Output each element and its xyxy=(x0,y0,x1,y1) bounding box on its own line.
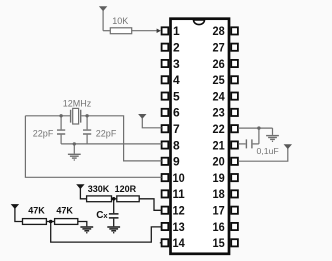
svg-text:0,1uF: 0,1uF xyxy=(257,146,279,156)
svg-text:10K: 10K xyxy=(112,16,128,26)
junction node 47K/47K xyxy=(49,220,53,224)
svg-text:27: 27 xyxy=(213,41,225,55)
ground below caps xyxy=(73,144,75,154)
power triangle 330K xyxy=(76,184,84,189)
svg-text:5: 5 xyxy=(173,89,180,103)
wire 47K2 to ground xyxy=(78,222,87,227)
svg-text:13: 13 xyxy=(173,220,185,234)
left pin boxes pins 1-14 xyxy=(162,27,169,246)
svg-text:47K: 47K xyxy=(56,205,73,215)
IC U1 body (28-pin DIP) xyxy=(171,19,230,254)
svg-text:3: 3 xyxy=(173,57,180,71)
svg-text:21: 21 xyxy=(213,138,225,152)
svg-text:11: 11 xyxy=(173,187,186,201)
svg-text:14: 14 xyxy=(173,236,185,250)
resistor R5 47K xyxy=(55,219,78,225)
svg-text:1: 1 xyxy=(173,24,180,38)
junction node left cap xyxy=(59,114,62,117)
svg-text:12MHz: 12MHz xyxy=(63,98,92,108)
wire 120R to pin 12 xyxy=(139,199,161,211)
resistor R2 330K xyxy=(87,196,112,202)
svg-text:10: 10 xyxy=(173,171,185,185)
junction node right cap xyxy=(85,114,88,117)
capacitor Cx: stub + plates + stub xyxy=(113,199,115,213)
svg-text:9: 9 xyxy=(173,155,180,169)
wire triangle to pin 7 xyxy=(142,118,161,128)
pin 14 stub xyxy=(160,242,162,244)
power triangle AVCC xyxy=(284,144,292,149)
power stub 47K xyxy=(15,207,23,221)
svg-text:4: 4 xyxy=(173,73,180,87)
right pin boxes pins 28-15 xyxy=(231,27,238,246)
svg-text:26: 26 xyxy=(213,57,225,71)
capacitor C1 22pF left: stub + plates xyxy=(60,116,62,130)
svg-text:Cx: Cx xyxy=(96,210,108,221)
svg-text:8: 8 xyxy=(173,138,180,152)
svg-text:25: 25 xyxy=(213,73,225,87)
wire 47K junction to pin 13 xyxy=(51,222,162,243)
svg-text:22: 22 xyxy=(213,122,225,136)
wire 330K-120R junction xyxy=(112,198,117,200)
svg-text:20: 20 xyxy=(213,155,225,169)
power stub 330K xyxy=(80,188,86,199)
svg-text:22pF: 22pF xyxy=(96,128,117,138)
svg-text:22pF: 22pF xyxy=(33,128,54,138)
wire resistor to pin 1 xyxy=(132,30,158,32)
ground below Cx xyxy=(107,226,120,228)
junction node ground row xyxy=(73,142,76,145)
power triangle 47K xyxy=(11,204,19,209)
svg-text:24: 24 xyxy=(213,89,225,103)
notch xyxy=(194,20,205,25)
wire between 47Ks xyxy=(46,221,54,223)
svg-text:7: 7 xyxy=(173,122,180,136)
svg-text:28: 28 xyxy=(213,24,225,38)
power triangle (10K) xyxy=(99,6,107,11)
svg-text:330K: 330K xyxy=(88,184,110,194)
power symbol VCC (10K) xyxy=(102,10,104,31)
wire: right leg of crystal to pin 9 xyxy=(81,116,161,161)
svg-text:19: 19 xyxy=(213,171,225,185)
resistor R4 47K xyxy=(23,219,47,225)
wire: left leg of crystal to left riser xyxy=(25,115,70,117)
junction node pin22 wire xyxy=(257,126,260,129)
svg-text:6: 6 xyxy=(173,106,180,120)
riser junction to cap xyxy=(258,128,260,144)
junction node 330K/120R xyxy=(112,197,116,201)
svg-text:120R: 120R xyxy=(115,184,137,194)
svg-text:23: 23 xyxy=(213,106,225,120)
crystal X1 body xyxy=(73,108,79,124)
resistor R1 10K xyxy=(110,28,131,34)
pin numbers right 28-15 xyxy=(213,24,225,250)
svg-text:17: 17 xyxy=(213,204,225,218)
resistor R3 120R xyxy=(117,196,139,202)
wire: left riser down to pin 10 xyxy=(25,116,161,178)
svg-text:2: 2 xyxy=(173,41,180,55)
capacitor C2 22pF right: stub + plates xyxy=(86,116,88,130)
crystal X1 plates xyxy=(71,110,81,123)
svg-text:16: 16 xyxy=(213,220,225,234)
ground after 47K2 xyxy=(80,226,93,228)
wire pin 22 to ground xyxy=(238,127,272,129)
pin numbers left 1-14 xyxy=(173,24,186,250)
svg-text:15: 15 xyxy=(213,236,225,250)
wire: cap-bottom ground row to pin 8 xyxy=(61,143,161,145)
svg-text:12: 12 xyxy=(173,204,185,218)
arrowhead at pin 1 xyxy=(157,29,161,34)
ground right xyxy=(272,128,274,135)
power triangle pin7 xyxy=(138,114,146,119)
capacitor C3 0,1uF: wire + plates xyxy=(238,143,245,145)
svg-text:47K: 47K xyxy=(28,205,45,215)
wire pin 20 to power xyxy=(238,148,287,161)
wire to resistor xyxy=(103,30,110,32)
svg-text:18: 18 xyxy=(213,187,225,201)
